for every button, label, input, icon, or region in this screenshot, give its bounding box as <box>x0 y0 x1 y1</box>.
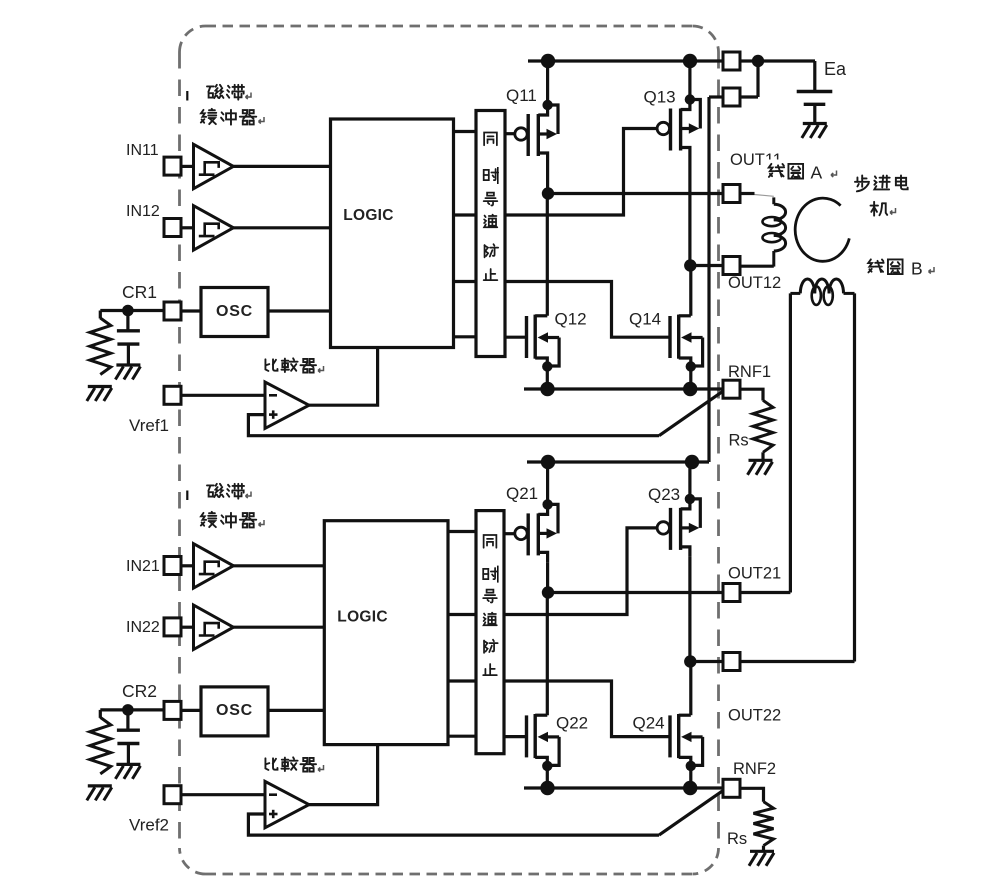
svg-text:IN12: IN12 <box>126 203 160 220</box>
svg-text:Q24: Q24 <box>633 714 665 733</box>
svg-text:OUT21: OUT21 <box>728 565 781 583</box>
svg-text:OSC: OSC <box>216 303 253 320</box>
svg-text:LOGIC: LOGIC <box>337 609 388 626</box>
svg-text:Q23: Q23 <box>648 485 680 504</box>
svg-text:Q22: Q22 <box>556 714 588 733</box>
svg-text:Q13: Q13 <box>644 88 676 107</box>
svg-text:Rs: Rs <box>727 830 747 848</box>
svg-text:A: A <box>811 163 823 183</box>
svg-text:Q11: Q11 <box>506 86 537 105</box>
svg-text:OSC: OSC <box>216 702 253 719</box>
svg-text:Rs: Rs <box>729 432 749 450</box>
svg-text:Q12: Q12 <box>555 310 587 329</box>
svg-text:Q21: Q21 <box>506 484 538 503</box>
svg-text:IN22: IN22 <box>126 619 160 636</box>
svg-text:RNF1: RNF1 <box>728 363 771 381</box>
svg-text:Vref1: Vref1 <box>129 416 169 435</box>
svg-text:CR1: CR1 <box>122 282 157 302</box>
svg-text:Ea: Ea <box>824 59 847 79</box>
svg-text:RNF2: RNF2 <box>733 760 776 778</box>
svg-text:Q14: Q14 <box>629 310 661 329</box>
svg-text:LOGIC: LOGIC <box>343 207 394 224</box>
svg-text:IN21: IN21 <box>126 558 160 575</box>
svg-text:CR2: CR2 <box>122 681 157 701</box>
svg-text:OUT12: OUT12 <box>728 274 781 292</box>
svg-text:OUT22: OUT22 <box>728 707 781 725</box>
svg-text:IN11: IN11 <box>126 142 159 159</box>
svg-text:B: B <box>911 259 923 279</box>
svg-text:Vref2: Vref2 <box>129 816 169 835</box>
